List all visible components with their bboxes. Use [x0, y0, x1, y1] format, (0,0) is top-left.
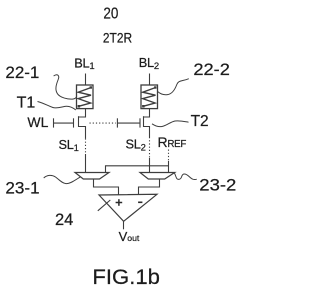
wire BL2 vertical lead: [149, 74, 151, 86]
wire BL1 vertical lead: [85, 74, 87, 86]
wire SL2 dotted segment: [149, 137, 151, 158]
svg-text:20: 20: [103, 6, 118, 23]
svg-text:FIG.1b: FIG.1b: [92, 265, 160, 289]
wire to T2 gate: [117, 122, 140, 124]
op-amp plus input label: [116, 199, 123, 206]
transistor T1 gate bar: [73, 118, 75, 127]
mux 23-1 trapezoid: [75, 173, 109, 180]
leader squiggle T2: [152, 121, 189, 127]
svg-text:WL: WL: [27, 114, 48, 130]
wire RREF to mux 23-2: [168, 161, 170, 173]
svg-text:T1: T1: [17, 95, 36, 112]
wire R1 to T1 drain: [79, 109, 86, 117]
wire RREF cross line to mux 23-1 second input: [106, 166, 169, 173]
svg-text:24: 24: [55, 211, 73, 229]
transistor T2 channel: [143, 116, 145, 127]
svg-text:Vout: Vout: [119, 229, 140, 244]
svg-text:2T2R: 2T2R: [103, 31, 132, 46]
leader squiggle T1: [38, 102, 76, 111]
resistor 22-1 (RRAM element R1): [77, 85, 94, 109]
svg-text:T2: T2: [191, 113, 209, 130]
svg-text:23-1: 23-1: [5, 179, 39, 197]
wire RREF dotted segment: [168, 150, 170, 162]
wire SL1 dotted segment: [85, 138, 87, 154]
op-amp minus input label: [138, 201, 142, 203]
terminal bar before T2 gate: [116, 118, 118, 127]
svg-text:BL1: BL1: [74, 55, 94, 72]
svg-text:22-2: 22-2: [193, 61, 230, 79]
mux 23-2 trapezoid: [140, 173, 175, 180]
wire word line dotted continuation: [90, 122, 116, 124]
resistor 22-2 (RRAM element R2): [141, 85, 158, 109]
op-amp 24 triangle: [99, 194, 157, 221]
svg-text:23-2: 23-2: [199, 177, 236, 195]
op-amp 24 leader slash: [98, 200, 111, 211]
wire WL to T1 gate: [54, 122, 74, 124]
wire SL1 to mux 23-1: [85, 154, 87, 173]
svg-text:RREF: RREF: [158, 134, 187, 150]
WL terminal bar: [53, 118, 55, 127]
svg-text:22-1: 22-1: [5, 64, 39, 82]
wire mux 23-2 output to op-amp minus input: [139, 179, 160, 195]
wire T2 source: [144, 127, 150, 138]
transistor T2 gate bar: [139, 118, 141, 127]
wire mux 23-1 output to op-amp plus input: [94, 179, 119, 195]
wire T2 drain to R2: [144, 109, 150, 117]
leader squiggle 23-1: [44, 175, 81, 183]
svg-text:BL2: BL2: [139, 55, 159, 72]
svg-text:SL1: SL1: [59, 137, 79, 154]
wire op-amp output to Vout: [123, 221, 125, 229]
wire T1 source: [79, 127, 86, 139]
leader squiggle 22-1: [54, 75, 77, 99]
leader squiggle 23-2: [174, 173, 197, 180]
svg-text:SL2: SL2: [126, 137, 146, 154]
transistor T1 channel: [78, 116, 80, 127]
leader squiggle 22-2: [158, 79, 189, 95]
wire SL2 to mux 23-2: [149, 158, 151, 173]
